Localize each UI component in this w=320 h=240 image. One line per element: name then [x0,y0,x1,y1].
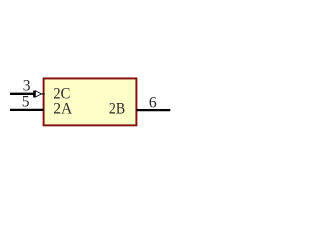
svg-text:5: 5 [22,94,30,111]
svg-text:6: 6 [149,95,157,112]
pin 3 wire [10,93,34,95]
svg-text:2B: 2B [109,101,125,118]
svg-text:3: 3 [23,77,31,94]
svg-text:2A: 2A [53,101,73,118]
IC body U2 (logic gate block) [44,78,137,125]
pin 3 input arrow [33,91,45,98]
pin 5 wire [10,109,44,111]
pin 6 wire [136,109,170,111]
